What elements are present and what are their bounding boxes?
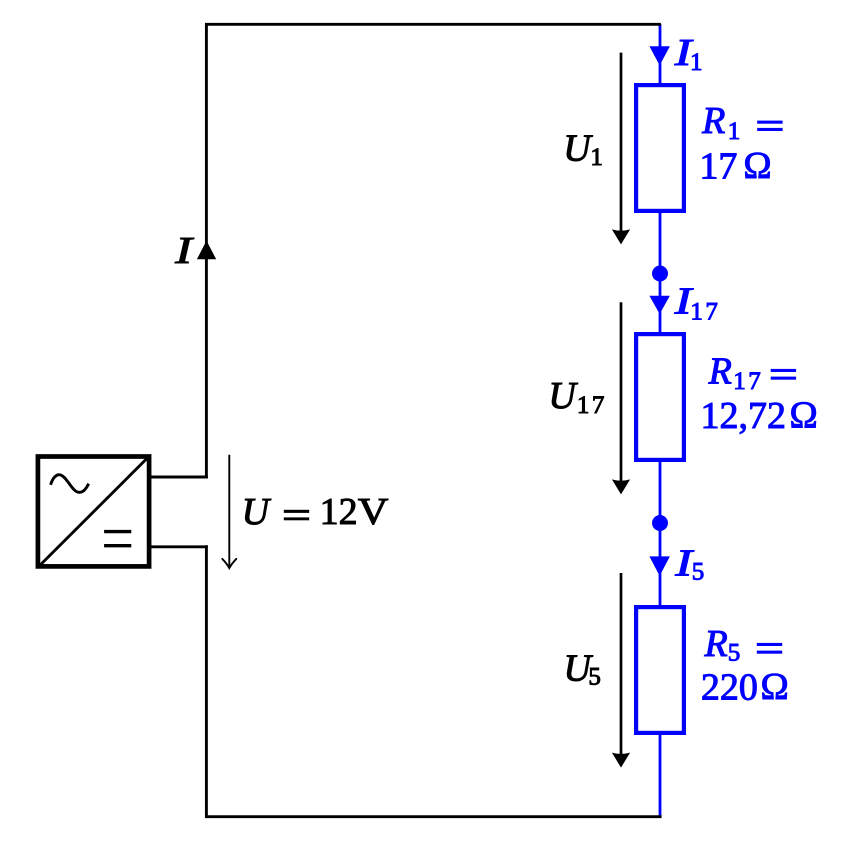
svg-text:R: R	[708, 351, 732, 393]
svg-text:U: U	[563, 127, 593, 169]
wire top rail and upper left rail	[206, 24, 661, 478]
node dot A	[652, 266, 668, 282]
arrow U17 head	[612, 479, 630, 494]
wire lower left rail and bottom rail	[206, 545, 661, 817]
svg-text:I: I	[174, 229, 194, 272]
svg-text:12,72: 12,72	[701, 395, 787, 437]
svg-text:5: 5	[588, 664, 601, 691]
svg-text:R: R	[701, 100, 725, 142]
wire source bottom stub	[150, 545, 208, 548]
svg-text:1: 1	[690, 49, 703, 76]
arrow U5 shaft	[620, 573, 623, 756]
arrow I1 (blue, down)	[649, 46, 670, 65]
arrow U=12V head	[222, 559, 236, 568]
arrow I17 (blue, down)	[649, 296, 670, 314]
source DC equals symbol	[104, 532, 131, 546]
svg-text:17: 17	[699, 146, 737, 188]
source sine symbol	[51, 475, 89, 493]
svg-text:V: V	[358, 490, 389, 532]
wire right vertical blue rail	[659, 24, 662, 816]
arrow U=12V shaft	[228, 455, 230, 567]
svg-text:17: 17	[733, 368, 763, 395]
arrow U5 head	[612, 753, 630, 768]
svg-text:R: R	[704, 623, 728, 665]
svg-text:17: 17	[690, 298, 720, 325]
wire source top stub	[150, 476, 208, 479]
svg-text:5: 5	[692, 559, 705, 586]
arrow U17 shaft	[620, 302, 623, 482]
svg-text:Ω: Ω	[761, 666, 789, 708]
source diagonal	[40, 458, 148, 566]
arrow I5 (blue, down)	[649, 556, 670, 576]
svg-text:1: 1	[728, 118, 741, 145]
node dot B	[652, 515, 668, 531]
svg-text:Ω: Ω	[790, 395, 818, 437]
svg-text:12: 12	[320, 491, 358, 533]
svg-text:220: 220	[701, 667, 758, 709]
svg-text:1: 1	[590, 144, 603, 171]
svg-text:Ω: Ω	[743, 145, 771, 187]
arrow U1 shaft	[620, 53, 623, 232]
svg-text:17: 17	[577, 392, 607, 419]
source box U1 (AC/DC converter)	[38, 457, 149, 567]
svg-text:U: U	[242, 491, 272, 533]
arrow U1 head	[612, 229, 630, 244]
arrow I (current, up)	[197, 241, 216, 260]
resistor R17	[636, 334, 684, 460]
svg-text:5: 5	[728, 640, 741, 667]
svg-text:U: U	[548, 375, 578, 417]
resistor R5	[636, 607, 684, 733]
resistor R1	[636, 85, 684, 211]
